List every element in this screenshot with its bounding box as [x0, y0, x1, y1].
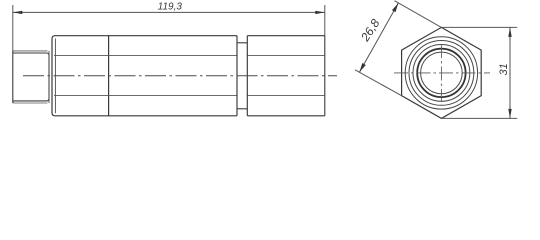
section joint line	[108, 36, 110, 116]
31 dimension line	[509, 27, 511, 118]
26.8 extension line A (through top vertex)	[395, 1, 442, 28]
extension line right of 119.3 dim (top of body right edge)	[324, 5, 326, 36]
end view horizontal centerline	[394, 72, 490, 74]
groove right edge	[246, 36, 248, 116]
26.8 arrow top	[392, 3, 398, 12]
stub left edge	[12, 51, 14, 103]
stub thread outer line bottom (thin)	[13, 102, 48, 104]
end view vertical centerline	[440, 44, 442, 102]
26.8 extension line B (through bottom-left corner)	[355, 70, 402, 96]
hex corner line bottom, segment 1	[54, 95, 237, 97]
stub right edge (joint to body)	[48, 51, 50, 103]
axis centerline of side view	[23, 75, 337, 77]
body left face chamfer line	[54, 39, 56, 114]
stub body rect (thick contour)	[13, 53, 49, 101]
dimension line 119.3	[13, 11, 325, 13]
hexagon outline (end view)	[402, 27, 482, 118]
31 extension line top	[442, 26, 518, 28]
svg-text:31: 31	[498, 63, 510, 75]
hex corner line bottom, segment 2	[247, 95, 324, 97]
circle 4 thread major	[417, 49, 465, 97]
body right edge	[324, 36, 326, 116]
hex corner line top, segment 2	[247, 55, 324, 57]
svg-text:26,8: 26,8	[358, 16, 383, 44]
arrow left 119.3	[13, 11, 22, 14]
groove bottom	[237, 108, 247, 110]
hex corner line top, segment 1	[54, 55, 237, 57]
26.8 dimension line	[359, 3, 398, 72]
main body outline	[52, 36, 325, 116]
circle 5 bore	[421, 52, 463, 94]
chamfer circle	[405, 37, 477, 109]
31 arrow top	[508, 27, 511, 37]
extension line left of 119.3 dim	[12, 5, 14, 51]
svg-text:119,3: 119,3	[158, 1, 183, 12]
circle 2	[409, 41, 474, 106]
31 arrow bottom	[508, 109, 511, 119]
26.8 arrow bottom	[359, 63, 365, 72]
circle 3	[413, 45, 470, 102]
groove left edge	[236, 36, 238, 116]
stub thread outer line top (thin)	[13, 50, 48, 52]
arrow right 119.3	[315, 11, 325, 14]
31 extension line bottom	[442, 117, 518, 119]
groove top	[237, 42, 247, 44]
